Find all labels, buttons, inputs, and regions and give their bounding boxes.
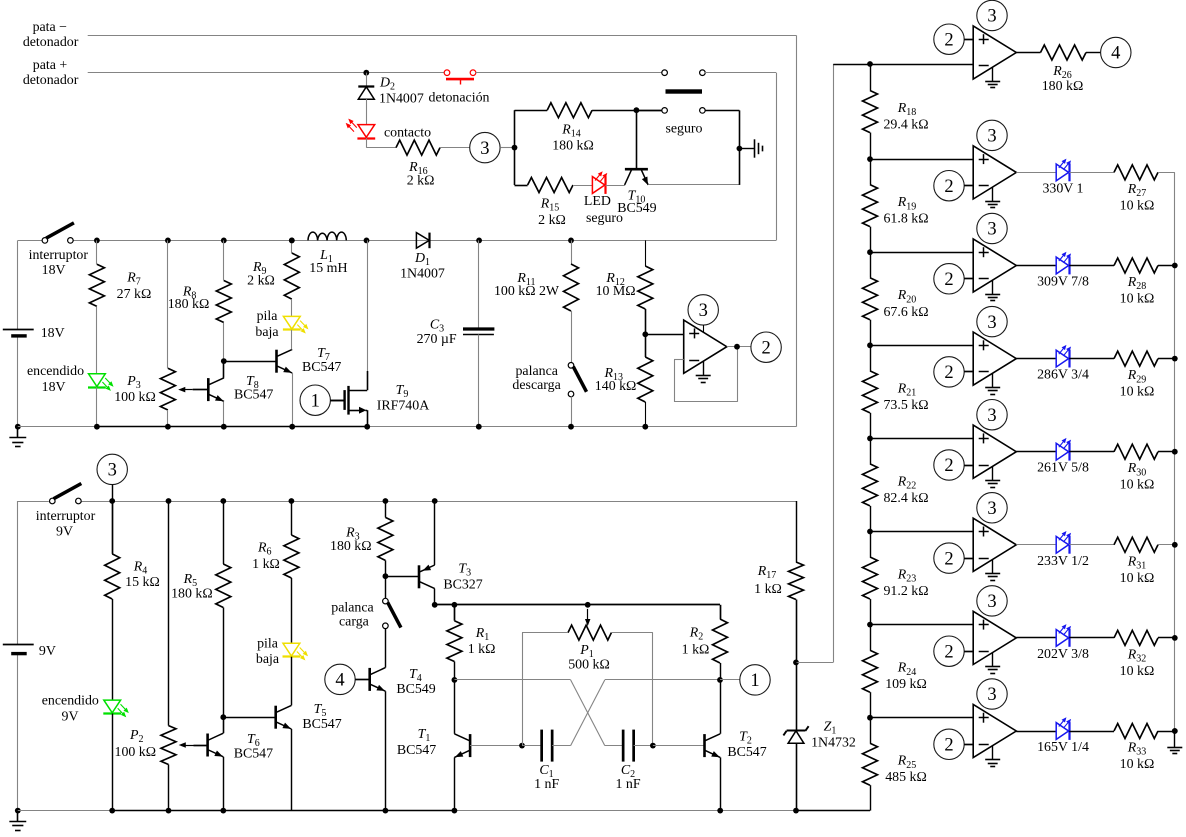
- svg-text:seguro: seguro: [665, 122, 702, 137]
- wire X-cross diag 1: [571, 680, 605, 746]
- svg-text:10 kΩ: 10 kΩ: [1120, 478, 1155, 493]
- junction C3 top: [476, 238, 482, 244]
- junction right rail row 3: [1172, 263, 1178, 269]
- wire ladder node to A8 plus: [870, 717, 973, 719]
- wire T1 emitter to rail: [454, 757, 456, 810]
- junction C1/P1 left: [519, 743, 525, 749]
- wire T3 emitter to rail: [434, 501, 436, 565]
- op-amp comparator A4: [973, 332, 1016, 385]
- wire R29 to right rail: [1158, 358, 1175, 360]
- svg-text:330V 1: 330V 1: [1042, 181, 1083, 196]
- junction R2 bottom: [717, 677, 723, 683]
- svg-text:10 kΩ: 10 kΩ: [1120, 292, 1155, 307]
- junction R5 top: [220, 498, 226, 504]
- svg-text:detonador: detonador: [23, 73, 79, 88]
- node 3 circle A6: [977, 493, 1007, 523]
- wire T8 emitter to rail: [223, 401, 225, 426]
- svg-text:encendido: encendido: [42, 694, 99, 709]
- transistor T4 BC549: [368, 668, 371, 691]
- wire to R15: [515, 185, 528, 187]
- junction R14/R15 split: [512, 145, 518, 151]
- node 3 (circle): [470, 132, 500, 162]
- node 1 (circle) T9 gate: [300, 385, 330, 415]
- node 3 circle A8: [977, 679, 1007, 709]
- resistor R23 91.2: [870, 532, 872, 558]
- node 3 circle A4: [977, 306, 1007, 336]
- wire LED seguro to T10: [606, 185, 625, 187]
- resistor R27 10k: [1069, 172, 1114, 174]
- resistor R3 180k: [385, 501, 387, 517]
- wire opamp feedback: [674, 359, 684, 361]
- wire LED to T7 collector: [291, 330, 293, 350]
- wire T5 emitter to rail: [291, 729, 293, 811]
- junction R1 top: [452, 602, 458, 608]
- junction P3 top: [165, 238, 171, 244]
- diode D1 1N4007: [416, 233, 429, 249]
- resistor R15 2k: [528, 178, 573, 193]
- resistor R26 180k: [1016, 52, 1040, 54]
- svg-text:1: 1: [750, 671, 759, 691]
- svg-text:descarga: descarga: [512, 378, 560, 393]
- svg-text:9V: 9V: [39, 644, 56, 659]
- LED seguro (red): [592, 177, 604, 194]
- resistor R18 29.4: [870, 64, 872, 91]
- wire ladder node to A4 plus: [870, 345, 973, 347]
- svg-text:4: 4: [335, 671, 344, 691]
- wire ladder node to A3 plus: [870, 252, 973, 254]
- wire LED to T5 collector: [291, 657, 293, 706]
- junction T10 collector: [634, 107, 640, 113]
- svg-text:91.2 kΩ: 91.2 kΩ: [883, 584, 928, 599]
- resistor R29 10k: [1069, 358, 1114, 360]
- node ladder 6: [867, 529, 873, 535]
- svg-text:18V: 18V: [42, 380, 66, 395]
- junction right rail row 5: [1172, 449, 1178, 455]
- wire 9V top rail: [18, 501, 49, 503]
- svg-text:1 kΩ: 1 kΩ: [468, 642, 496, 657]
- capacitor C2 1nF: [605, 745, 623, 747]
- wire R11 to palanca descarga: [571, 311, 573, 363]
- svg-text:detonador: detonador: [23, 35, 79, 50]
- wire opamp + input: [645, 334, 683, 336]
- junction right rail row 4: [1172, 356, 1178, 362]
- inductor L1 15mH: [289, 238, 295, 244]
- svg-text:261V 5/8: 261V 5/8: [1037, 461, 1089, 476]
- capacitor C1 1nF: [522, 745, 542, 747]
- svg-text:pila: pila: [257, 309, 278, 324]
- battery 9V: [3, 644, 34, 646]
- LED indicator 261V 5/8 (blue): [1016, 451, 1056, 453]
- transistor T10 BC549: [636, 110, 638, 169]
- svg-text:2: 2: [944, 177, 953, 197]
- wire R16 to node 3: [440, 147, 470, 149]
- node ladder 1: [867, 61, 873, 67]
- node 3 (circle) top of 9V switch: [97, 454, 127, 484]
- svg-text:2: 2: [944, 642, 953, 662]
- svg-text:2: 2: [944, 736, 953, 756]
- wire X-cross right: [605, 679, 720, 681]
- wire 18V left column: [17, 240, 19, 329]
- svg-text:BC547: BC547: [234, 388, 273, 403]
- capacitor C3 270uF (polarized): [478, 240, 480, 327]
- wire R14 to T10 collector node: [592, 110, 662, 112]
- node 2 circle A1: [934, 24, 964, 54]
- junction R1 bottom: [454, 662, 456, 680]
- svg-text:2: 2: [944, 30, 953, 50]
- wire pata- down to ground rail: [796, 35, 798, 426]
- wire LED contacto to R16: [366, 138, 368, 148]
- mosfet T9 IRF740A: [367, 240, 369, 371]
- wire seguro lower pole right down: [705, 110, 740, 112]
- junction R8 top: [221, 238, 227, 244]
- transistor T8 BC547: [223, 361, 225, 378]
- wire R33 to right rail: [1158, 731, 1175, 733]
- svg-text:2: 2: [944, 549, 953, 569]
- resistor R14 180k: [547, 103, 592, 118]
- wire R32 to right rail: [1158, 637, 1175, 639]
- node 3 circle A3: [977, 213, 1007, 243]
- transistor T5 BC547: [223, 717, 275, 719]
- transistor T2 BC547: [653, 745, 705, 747]
- LED indicator 330V 1 (blue): [1016, 172, 1056, 174]
- node 4 (circle) T4 base: [325, 664, 355, 694]
- resistor R31 10k: [1069, 544, 1114, 546]
- wire to node 1: [720, 679, 740, 681]
- svg-text:309V 7/8: 309V 7/8: [1037, 275, 1089, 290]
- resistor R7 27k: [96, 240, 98, 264]
- node 2 circle A3: [934, 264, 964, 294]
- zener Z1 1N4732: [796, 662, 798, 730]
- svg-text:233V 1/2: 233V 1/2: [1037, 554, 1089, 569]
- resistor R4 15k: [112, 501, 114, 554]
- LED contacto (red): [366, 99, 368, 124]
- resistor R24 109: [870, 625, 872, 651]
- junction C2/P1 right: [650, 743, 656, 749]
- op-amp comparator A8: [973, 704, 1016, 757]
- node ladder 2: [867, 156, 873, 162]
- LED encendido 9V (green): [112, 599, 114, 700]
- transistor T6 BC547: [223, 717, 225, 733]
- svg-text:BC547: BC547: [302, 360, 341, 375]
- transistor T1 BC547 (mirrored): [469, 734, 472, 757]
- LED indicator 202V 3/8 (blue): [1016, 637, 1056, 639]
- wire ladder node to A7 plus: [870, 624, 973, 626]
- svg-text:detonación: detonación: [429, 91, 490, 106]
- junction R11 top: [568, 238, 574, 244]
- wire T2 collector: [720, 680, 722, 734]
- wire R5 to T6/T5 node: [223, 608, 225, 718]
- resistor R5 180k: [223, 501, 225, 564]
- node 2 circle A2: [934, 171, 964, 201]
- svg-text:2: 2: [761, 338, 770, 358]
- wire to ladder top: [796, 662, 833, 664]
- wire palanca carga to T4 collector: [385, 628, 387, 667]
- svg-text:2 kΩ: 2 kΩ: [538, 213, 566, 228]
- svg-text:9V: 9V: [62, 710, 79, 725]
- wire pata- rail: [88, 35, 796, 37]
- svg-text:encendido: encendido: [27, 364, 84, 379]
- svg-text:3: 3: [480, 139, 489, 159]
- svg-text:180 kΩ: 180 kΩ: [168, 297, 210, 312]
- wire T4 emitter to rail: [385, 691, 387, 810]
- resistor R25 485: [870, 718, 872, 743]
- wire 9V left column: [17, 501, 19, 644]
- wire X-cross diag 2: [571, 680, 605, 746]
- wire T6 emitter to rail: [223, 757, 225, 811]
- svg-text:BC327: BC327: [443, 578, 482, 593]
- svg-text:3: 3: [987, 127, 996, 147]
- wire R8 to T8/T7 node: [223, 323, 225, 362]
- LED indicator 286V 3/4 (blue): [1016, 358, 1056, 360]
- node 2 circle A8: [934, 729, 964, 759]
- wire P3 column: [167, 240, 169, 368]
- resistor R17 1k: [796, 501, 798, 562]
- op-amp comparator A7: [973, 611, 1016, 664]
- resistor R33 10k: [1069, 731, 1114, 733]
- svg-text:LED: LED: [584, 194, 611, 209]
- svg-text:270 µF: 270 µF: [417, 332, 457, 347]
- svg-text:2: 2: [944, 456, 953, 476]
- potentiometer P2 100k: [161, 726, 176, 765]
- junction opamp output: [727, 346, 751, 348]
- wire T2 emitter to rail: [720, 757, 722, 810]
- node ladder 8: [867, 715, 873, 721]
- svg-text:3: 3: [987, 592, 996, 612]
- resistor R19 61.8: [870, 159, 872, 185]
- svg-text:baja: baja: [256, 652, 279, 667]
- resistor R11 100k 2W: [571, 240, 573, 264]
- svg-text:10 kΩ: 10 kΩ: [1120, 757, 1155, 772]
- svg-text:1 kΩ: 1 kΩ: [252, 557, 280, 572]
- resistor R22 82.4: [870, 438, 872, 464]
- LED encendido 18V (green): [96, 306, 98, 373]
- svg-text:18V: 18V: [41, 326, 65, 341]
- svg-text:2: 2: [944, 270, 953, 290]
- wire ladder node to A2 plus: [870, 159, 973, 161]
- svg-text:73.5 kΩ: 73.5 kΩ: [883, 398, 928, 413]
- LED pila baja 18V (yellow): [291, 299, 293, 316]
- svg-text:140 kΩ: 140 kΩ: [595, 379, 637, 394]
- wire ladder top to node1: [833, 64, 870, 66]
- svg-text:interruptor: interruptor: [36, 509, 96, 524]
- resistor R28 10k: [1069, 265, 1114, 267]
- wire T3 collector down: [434, 589, 436, 605]
- wire pata+ seguro to 18V rail: [705, 72, 776, 74]
- wire P1 left arm: [522, 632, 568, 634]
- svg-text:10 kΩ: 10 kΩ: [1120, 198, 1155, 213]
- svg-text:3: 3: [987, 406, 996, 426]
- svg-text:3: 3: [987, 313, 996, 333]
- node 3 circle A1: [977, 0, 1007, 30]
- wire T7 emitter to rail: [292, 373, 294, 427]
- junction P1 arrow tap: [585, 602, 591, 608]
- svg-text:500 kΩ: 500 kΩ: [568, 658, 610, 673]
- wire R31 to right rail: [1158, 544, 1175, 546]
- resistor R6 1k: [291, 501, 293, 535]
- svg-text:interruptor: interruptor: [29, 248, 89, 263]
- svg-text:3: 3: [987, 220, 996, 240]
- wire R27 to right rail: [1158, 172, 1175, 174]
- svg-text:9V: 9V: [56, 525, 73, 540]
- wire 9V bottom rail: [18, 810, 112, 812]
- op-amp comparator A3: [973, 239, 1016, 292]
- potentiometer P1 500k: [587, 609, 589, 623]
- svg-text:2 kΩ: 2 kΩ: [407, 174, 435, 189]
- resistor R12 10M: [645, 240, 647, 266]
- svg-text:BC549: BC549: [617, 201, 656, 216]
- svg-text:1 nF: 1 nF: [534, 777, 559, 792]
- wire T1 collector: [454, 680, 456, 734]
- ground (right-facing) seguro: [754, 139, 756, 157]
- wire P1 right arm: [611, 632, 653, 634]
- svg-text:3: 3: [987, 499, 996, 519]
- svg-text:27 kΩ: 27 kΩ: [117, 287, 152, 302]
- svg-text:1N4007: 1N4007: [379, 92, 424, 107]
- potentiometer P3 100k: [160, 368, 175, 410]
- ground right rail: [1174, 731, 1176, 747]
- wire ladder node to A5 plus: [870, 438, 973, 440]
- svg-text:10 MΩ: 10 MΩ: [596, 284, 636, 299]
- svg-text:4: 4: [1111, 44, 1120, 64]
- ground 9V battery: [15, 808, 21, 814]
- svg-text:485 kΩ: 485 kΩ: [885, 770, 927, 785]
- junction right rail row 6: [1172, 542, 1178, 548]
- wire T3 collector line: [435, 604, 720, 606]
- svg-text:pata −: pata −: [33, 20, 68, 35]
- op-amp U1 (18V monitor): [684, 320, 727, 373]
- node 3 circle A7: [977, 586, 1007, 616]
- svg-text:180 kΩ: 180 kΩ: [171, 587, 213, 602]
- resistor R1 1k: [454, 605, 456, 621]
- svg-text:BC547: BC547: [234, 747, 273, 762]
- svg-text:1 kΩ: 1 kΩ: [682, 643, 710, 658]
- resistor R8 180k: [223, 240, 225, 280]
- svg-text:100 kΩ: 100 kΩ: [114, 390, 156, 405]
- junction R3 / T3 base: [385, 560, 387, 576]
- node 2 circle A7: [934, 636, 964, 666]
- wire R30 to right rail: [1158, 451, 1175, 453]
- svg-text:3: 3: [987, 685, 996, 705]
- switch palanca descarga: [568, 363, 574, 369]
- svg-text:100 kΩ: 100 kΩ: [115, 745, 157, 760]
- node 2 circle A6: [934, 543, 964, 573]
- wire R15 to LED seguro: [573, 185, 592, 187]
- wire 18V bottom rail: [18, 426, 97, 428]
- wire P2 column: [168, 501, 170, 726]
- junction T8 collector / T7 base: [221, 358, 227, 364]
- junction pata+ / D2: [363, 70, 369, 76]
- junction R17 / Z1 / ladder wire: [793, 660, 799, 666]
- op-amp comparator A1: [973, 26, 1016, 79]
- junction R7 top: [94, 238, 100, 244]
- wire T10 emitter to seguro lower pole: [648, 184, 739, 186]
- svg-text:2: 2: [944, 363, 953, 383]
- junction R12/R13 opamp+ tap: [645, 309, 647, 357]
- junction R6 top: [289, 498, 295, 504]
- svg-text:1N4007: 1N4007: [400, 267, 445, 282]
- wire T6 base to P2: [194, 745, 208, 747]
- node 2 circle A4: [934, 357, 964, 387]
- svg-text:10 kΩ: 10 kΩ: [1120, 385, 1155, 400]
- svg-text:BC547: BC547: [727, 745, 766, 760]
- switch palanca carga: [385, 576, 387, 598]
- svg-text:109 kΩ: 109 kΩ: [885, 677, 927, 692]
- junction P2 top: [166, 498, 172, 504]
- resistor R32 10k: [1069, 637, 1114, 639]
- junction T6 collector / T5 base: [220, 714, 226, 720]
- svg-text:15 mH: 15 mH: [309, 261, 347, 276]
- svg-text:180 kΩ: 180 kΩ: [330, 539, 372, 554]
- node 3 circle A5: [977, 400, 1007, 430]
- svg-text:1 nF: 1 nF: [615, 777, 640, 792]
- svg-text:67.6 kΩ: 67.6 kΩ: [883, 305, 928, 320]
- wire to R14: [515, 110, 548, 112]
- resistor R16 2k: [396, 140, 440, 155]
- wire R26 to node 4: [1086, 52, 1101, 54]
- node ladder 4: [867, 342, 873, 348]
- wire ladder node to A6 plus: [870, 531, 973, 533]
- node 3 circle A2: [977, 120, 1007, 150]
- wire T1 base to C1 node: [470, 745, 522, 747]
- op-amp comparator A2: [973, 146, 1016, 199]
- junction R4 top: [109, 498, 115, 504]
- svg-text:10 kΩ: 10 kΩ: [1120, 664, 1155, 679]
- svg-text:202V 3/8: 202V 3/8: [1037, 647, 1089, 662]
- resistor R21 73.5: [870, 345, 872, 371]
- svg-text:180 kΩ: 180 kΩ: [552, 139, 594, 154]
- svg-text:pata +: pata +: [33, 58, 68, 73]
- svg-text:contacto: contacto: [384, 126, 431, 141]
- wire detonacion to seguro: [476, 72, 663, 74]
- wire node3 to R14/R15 split: [500, 147, 514, 149]
- junction T9 drain: [364, 238, 370, 244]
- junction right rail row 7: [1172, 635, 1178, 641]
- junction R9 top: [289, 238, 295, 244]
- wire R28 to right rail: [1158, 265, 1175, 267]
- LED indicator 309V 7/8 (blue): [1016, 265, 1056, 267]
- node 2 circle A5: [934, 450, 964, 480]
- svg-text:10 kΩ: 10 kΩ: [1120, 571, 1155, 586]
- svg-text:286V 3/4: 286V 3/4: [1037, 368, 1089, 383]
- resistor R20 67.6: [870, 252, 872, 278]
- svg-text:palanca: palanca: [331, 601, 373, 616]
- svg-text:15 kΩ: 15 kΩ: [125, 575, 160, 590]
- wire A1 minus to ladder: [870, 64, 973, 66]
- wire 18V top rail: [18, 240, 43, 242]
- resistor R13 140k: [638, 357, 653, 402]
- svg-text:1 kΩ: 1 kΩ: [754, 582, 782, 597]
- svg-text:carga: carga: [339, 615, 369, 630]
- svg-text:baja: baja: [255, 325, 278, 340]
- op-amp comparator A5: [973, 425, 1016, 478]
- resistor R9 2k: [291, 240, 293, 253]
- wire comparator right rail: [1174, 172, 1176, 731]
- svg-text:3: 3: [108, 461, 117, 481]
- LED indicator 165V 1/4 (blue): [1016, 731, 1056, 733]
- transistor T7 BC547: [224, 361, 277, 363]
- svg-text:1N4732: 1N4732: [811, 736, 856, 751]
- battery 18V: [3, 329, 34, 331]
- svg-text:29.4 kΩ: 29.4 kΩ: [883, 118, 928, 133]
- wire pata+ to detonacion switch: [88, 72, 445, 74]
- node ladder 5: [867, 436, 873, 442]
- LED pila baja 9V (yellow): [291, 578, 293, 643]
- switch detonacion (push button): [444, 70, 450, 76]
- svg-text:1: 1: [311, 391, 320, 411]
- op-amp comparator A6: [973, 518, 1016, 571]
- wire seguro lower pole left: [636, 110, 662, 112]
- wire T8 base to P3: [193, 389, 209, 391]
